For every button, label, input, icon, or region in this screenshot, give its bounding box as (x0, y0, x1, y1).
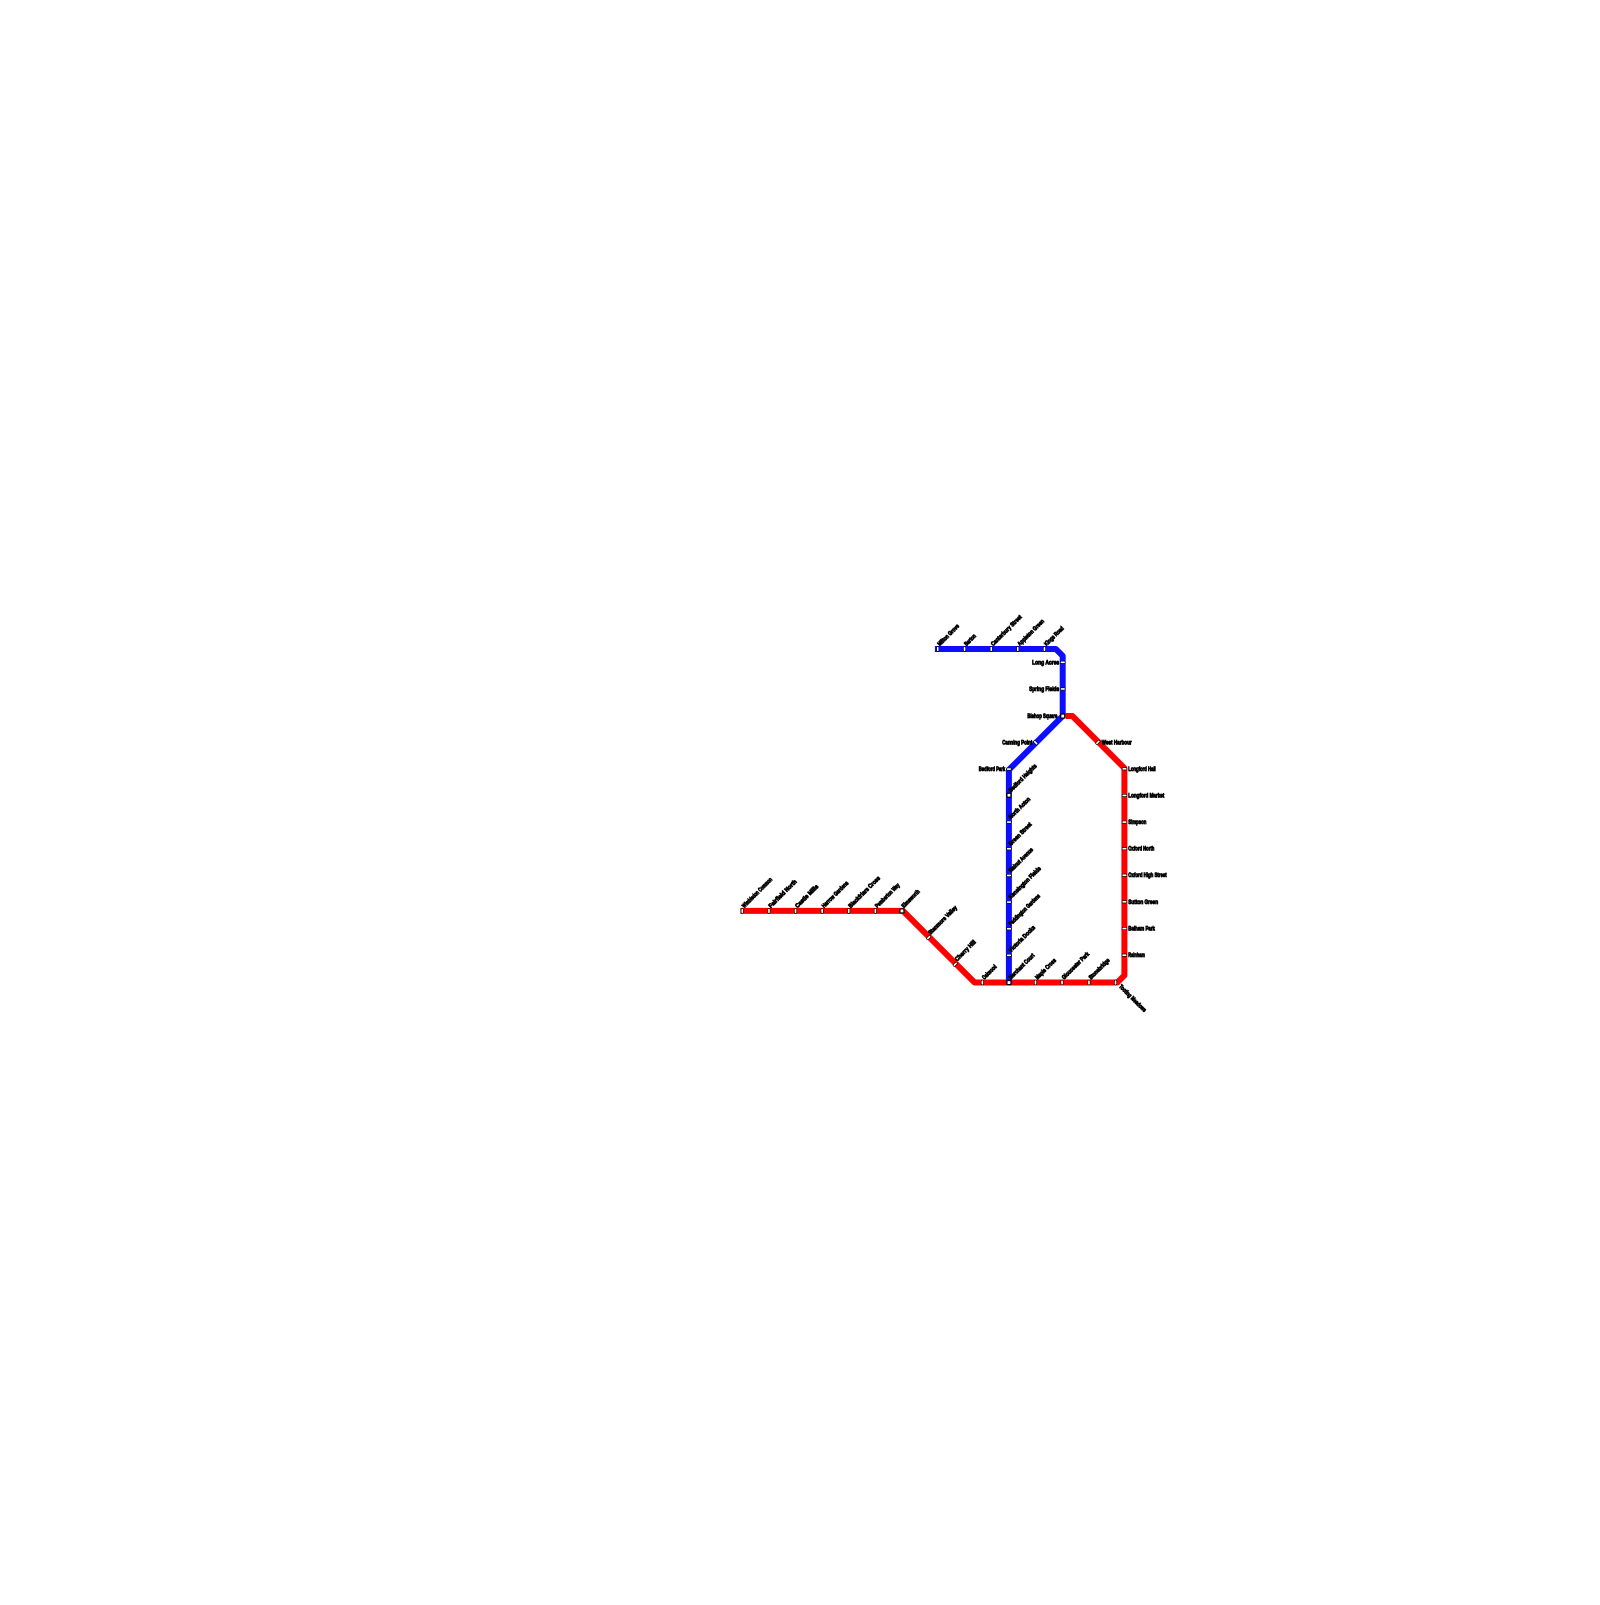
station Green Street (1007, 848, 1012, 850)
station Oakwood (981, 980, 983, 985)
interchange Elmsworth (900, 909, 904, 913)
svg-text:Canning Point: Canning Point (1002, 741, 1032, 747)
station Balham Park (1122, 927, 1127, 929)
station North Acton (1007, 821, 1012, 823)
svg-text:Bedford Park: Bedford Park (979, 767, 1006, 773)
svg-text:Longford Market: Longford Market (1128, 793, 1164, 799)
svg-text:Simpson: Simpson (1128, 820, 1146, 826)
station Oxford High Street (1122, 874, 1127, 876)
svg-text:Rainham: Rainham (1128, 953, 1145, 959)
station Rainham (1122, 954, 1127, 956)
svg-text:Spring Fields: Spring Fields (1029, 687, 1060, 693)
station Bedford Park (1007, 768, 1012, 770)
interchange Bishop Square (1061, 714, 1065, 718)
svg-text:West Harbour: West Harbour (1102, 740, 1133, 746)
station Milton Grove (937, 647, 939, 652)
station Long Acres (1060, 661, 1065, 663)
station Paddington Gardens (1007, 928, 1012, 930)
station Canning Point (1033, 740, 1038, 745)
station Kensington Fields (1007, 901, 1012, 903)
station Longford Market (1122, 794, 1127, 796)
svg-text:Oxford North: Oxford North (1128, 847, 1154, 853)
svg-text:Longford Hall: Longford Hall (1128, 767, 1156, 773)
station Maple Cross (1034, 980, 1036, 985)
svg-text:Bishop Square: Bishop Square (1027, 714, 1057, 720)
station Victoria Docks (1007, 954, 1012, 956)
station Canterbury Street (990, 647, 992, 652)
station Stonebridge (1088, 980, 1090, 985)
svg-text:Sutton Green: Sutton Green (1128, 900, 1158, 906)
svg-text:Balham Park: Balham Park (1128, 927, 1155, 933)
svg-text:Long Acres: Long Acres (1032, 660, 1060, 666)
interchange Bedford Heights (1007, 793, 1011, 797)
station Simpson (1122, 821, 1127, 823)
station Walnut Avenue (1007, 874, 1012, 876)
station Castle Mills (794, 908, 796, 913)
blue line (935, 649, 1063, 983)
station Longford Hall (1122, 768, 1127, 770)
svg-text:Oxford High Street: Oxford High Street (1128, 873, 1166, 879)
station Cherry Hill (953, 962, 958, 967)
station Fairfield North (768, 908, 770, 913)
station Pemberton Way (874, 908, 876, 913)
station West Harbour (1095, 740, 1100, 745)
station Sutton Green (1122, 901, 1127, 903)
station Harrow Gardens (821, 908, 823, 913)
station Spring Fields (1060, 688, 1065, 690)
station Wimbledon Common (741, 908, 743, 913)
station Stanmore Valley (926, 935, 931, 940)
interchange Merchant Court (1007, 981, 1011, 985)
station Barton (963, 647, 965, 652)
station Gloucester Park (1061, 980, 1063, 985)
station Tooting Meadows (1114, 980, 1116, 985)
station Oxford North (1122, 847, 1127, 849)
station Blackfriars Cross (848, 908, 850, 913)
red line (740, 716, 1124, 983)
station Appleton Green (1017, 647, 1019, 652)
station Kings Road (1043, 647, 1045, 652)
